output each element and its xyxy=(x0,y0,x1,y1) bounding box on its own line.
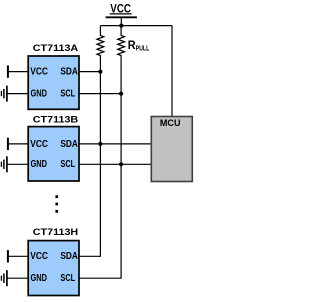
net label VCC xyxy=(110,2,132,16)
svg-text:SDA: SDA xyxy=(60,139,78,150)
wire SCL bus xyxy=(120,58,122,278)
junction dot VCC rail xyxy=(119,24,123,28)
wire GND lead (CT7113H) xyxy=(7,277,28,279)
junction dot SCL bus / CT7113B xyxy=(119,162,123,166)
wire VCC rail to MCU xyxy=(171,26,173,117)
sensor CT7113H xyxy=(28,241,79,296)
wire GND lead (CT7113A) xyxy=(7,93,28,95)
wire VCC stem xyxy=(120,17,122,25)
VCC power bar symbol xyxy=(106,16,137,18)
pull-up resistor (SDA) xyxy=(97,26,104,58)
power terminal bar (CT7113A) xyxy=(7,65,9,77)
wire VCC lead (CT7113A) xyxy=(8,71,28,73)
svg-text:VCC: VCC xyxy=(30,139,48,150)
pull-up resistor RPULL (SCL) xyxy=(118,26,125,58)
svg-text:VCC: VCC xyxy=(30,67,48,78)
ellipsis more devices xyxy=(55,195,58,212)
svg-text:SDA: SDA xyxy=(60,67,78,78)
wire SCL lead (CT7113H) xyxy=(79,277,122,279)
junction dot SDA bus / CT7113B xyxy=(98,142,102,146)
svg-text:VCC: VCC xyxy=(30,251,48,262)
wire GND lead (CT7113B) xyxy=(7,163,28,165)
wire VCC rail xyxy=(100,25,172,27)
svg-text:GND: GND xyxy=(31,159,48,170)
wire SDA lead (CT7113A) xyxy=(79,71,100,73)
microcontroller MCU xyxy=(151,117,192,182)
ground (CT7113A) xyxy=(1,86,7,102)
svg-text:CT7113A: CT7113A xyxy=(33,42,79,53)
ground (CT7113H) xyxy=(1,270,7,286)
wire SDA bus xyxy=(99,58,101,256)
svg-text:SCL: SCL xyxy=(60,89,75,100)
svg-text:GND: GND xyxy=(31,273,48,284)
svg-text:SCL: SCL xyxy=(60,273,75,284)
value label RPULL xyxy=(128,38,150,53)
sensor CT7113B xyxy=(28,127,79,181)
wire VCC lead (CT7113B) xyxy=(8,143,28,145)
wire SDA lead (CT7113H) xyxy=(79,255,101,257)
svg-text:SCL: SCL xyxy=(60,159,75,170)
svg-text:MCU: MCU xyxy=(160,118,181,129)
wire SCL lead CT7113B to MCU xyxy=(79,163,151,165)
svg-text:GND: GND xyxy=(31,89,48,100)
sensor CT7113A xyxy=(28,56,79,109)
svg-text:SDA: SDA xyxy=(60,251,78,262)
junction dot SCL bus / CT7113A xyxy=(119,92,123,96)
power terminal bar (CT7113H) xyxy=(7,250,9,262)
junction dot SDA bus / CT7113A xyxy=(98,70,102,74)
svg-text:PULL: PULL xyxy=(136,44,150,53)
wire VCC lead (CT7113H) xyxy=(8,255,28,257)
wire SCL lead (CT7113A) xyxy=(79,93,121,95)
svg-text:CT7113H: CT7113H xyxy=(33,226,79,237)
wire SDA lead CT7113B to MCU xyxy=(79,143,151,145)
power terminal bar (CT7113B) xyxy=(7,138,9,150)
ground (CT7113B) xyxy=(1,156,7,172)
svg-text:CT7113B: CT7113B xyxy=(33,113,79,124)
